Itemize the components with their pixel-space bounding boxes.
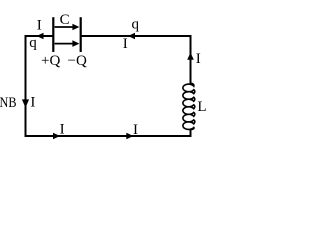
current arrow bottom-left (pointing right) — [53, 133, 60, 140]
svg-text:q: q — [29, 35, 37, 51]
capacitor C right plate — [80, 17, 82, 52]
wire right upper — [190, 35, 192, 84]
svg-text:L: L — [197, 99, 206, 115]
capacitor C left plate — [52, 17, 54, 52]
wire bottom — [25, 135, 192, 137]
current arrow left side (pointing down) — [22, 99, 29, 107]
wire right lower — [190, 129, 192, 137]
current arrow bottom-middle (pointing right) — [126, 133, 133, 140]
current arrow right side (pointing up) — [187, 53, 194, 60]
svg-text:C: C — [60, 12, 70, 28]
wire left side — [25, 35, 27, 137]
svg-text:I: I — [133, 122, 138, 138]
current arrow top-left (pointing left) — [37, 33, 44, 40]
svg-text:I: I — [37, 18, 42, 34]
svg-text:I: I — [123, 36, 128, 52]
field arrow lower (between plates) — [55, 40, 80, 47]
svg-text:q: q — [132, 17, 140, 33]
svg-text:I: I — [60, 122, 65, 138]
wire top-right segment — [81, 35, 192, 37]
svg-text:+Q: +Q — [41, 53, 60, 69]
svg-text:I: I — [30, 94, 35, 110]
current arrow top-right (pointing left) — [128, 33, 135, 40]
field arrow upper (between plates) — [55, 24, 80, 31]
inductor L coil — [183, 83, 195, 129]
svg-text:−Q: −Q — [68, 53, 87, 69]
wire top-left segment — [25, 35, 54, 37]
svg-text:NB: NB — [0, 95, 17, 111]
svg-text:I: I — [196, 51, 201, 67]
